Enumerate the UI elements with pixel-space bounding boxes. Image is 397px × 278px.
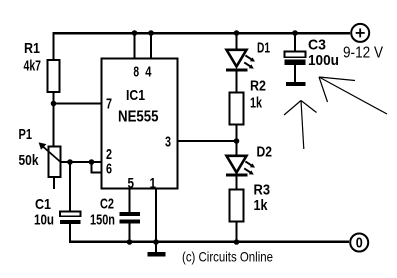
svg-text:0: 0 [356,235,363,252]
svg-text:3: 3 [165,134,171,151]
svg-text:1: 1 [150,175,157,192]
svg-text:5: 5 [128,175,135,192]
svg-text:7: 7 [106,96,112,113]
svg-text:4k7: 4k7 [24,58,42,75]
svg-text:IC1: IC1 [126,87,145,104]
svg-text:50k: 50k [19,152,40,169]
svg-text:NE555: NE555 [118,109,159,126]
svg-text:10u: 10u [34,212,54,229]
svg-text:D2: D2 [257,144,273,161]
svg-text:R1: R1 [24,40,40,57]
svg-text:4: 4 [145,64,152,81]
svg-text:8: 8 [133,64,139,81]
svg-text:C2: C2 [100,196,114,213]
svg-text:C3: C3 [308,37,326,54]
svg-text:R2: R2 [250,78,266,95]
svg-text:9-12 V: 9-12 V [343,45,383,62]
svg-text:6: 6 [106,161,112,178]
svg-text:1k: 1k [250,95,262,112]
svg-text:(c) Circuits Online: (c) Circuits Online [182,249,273,265]
svg-text:P1: P1 [19,126,33,143]
svg-text:C1: C1 [35,196,51,213]
svg-text:D1: D1 [257,40,270,57]
svg-text:1k: 1k [254,197,269,214]
svg-text:R3: R3 [254,182,271,199]
svg-text:100u: 100u [308,52,339,69]
svg-text:150n: 150n [90,212,115,229]
